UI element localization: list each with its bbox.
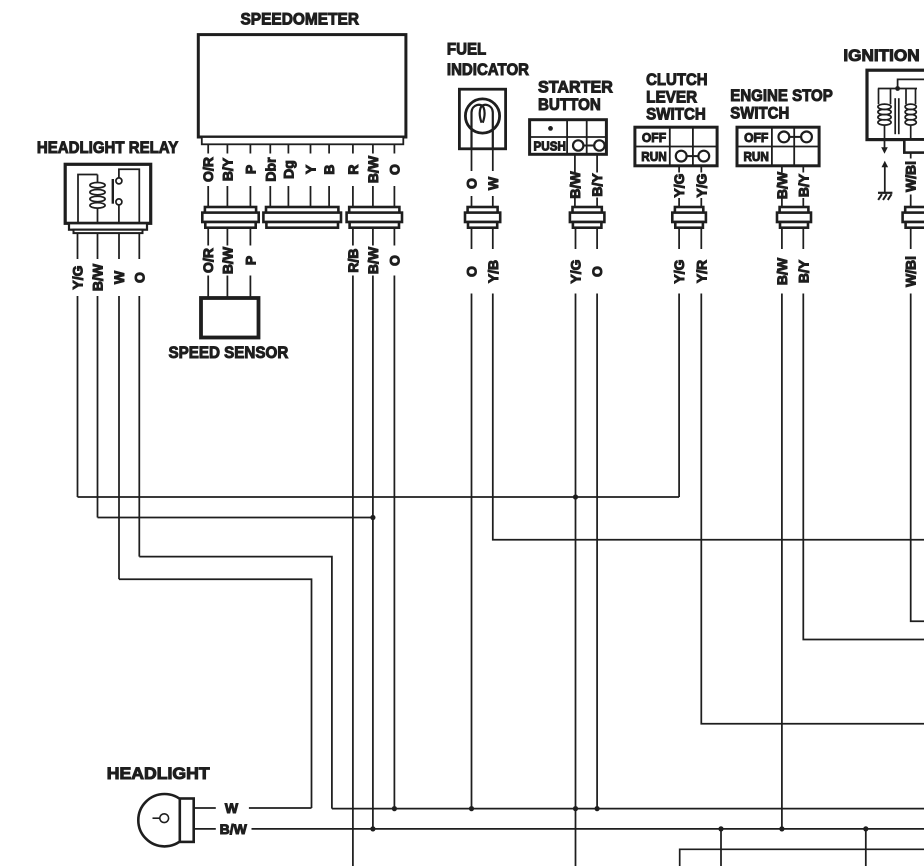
wire B/Y engine stop pin bbox=[802, 166, 804, 207]
speed sensor label bbox=[169, 343, 289, 362]
wire label Y bbox=[303, 164, 319, 174]
wire label B/W bbox=[365, 155, 381, 183]
svg-text:O: O bbox=[589, 266, 605, 277]
svg-text:LEVER: LEVER bbox=[646, 87, 697, 106]
wire label W bbox=[485, 176, 501, 190]
wire label B/W bbox=[774, 171, 790, 199]
wire label Y/R bbox=[693, 260, 709, 283]
svg-text:P: P bbox=[242, 165, 258, 174]
svg-text:W/Bl: W/Bl bbox=[903, 256, 919, 287]
wire O (starter) lower bbox=[596, 228, 598, 809]
engine stop switch label bbox=[730, 86, 833, 122]
svg-text:B/W: B/W bbox=[774, 171, 790, 199]
svg-text:B/W: B/W bbox=[365, 246, 381, 274]
svg-text:B/W: B/W bbox=[220, 821, 248, 837]
svg-text:Dbr: Dbr bbox=[262, 157, 278, 182]
wire O/R to speed sensor bbox=[207, 228, 209, 299]
wire label P bbox=[242, 165, 258, 174]
connector 2P (clutch switch) bbox=[672, 207, 706, 228]
wire W fuel pin bbox=[492, 149, 494, 207]
wire W/Bl ignition pin bbox=[910, 153, 912, 207]
svg-text:SPEED SENSOR: SPEED SENSOR bbox=[169, 343, 289, 362]
svg-text:IGNITION: IGNITION bbox=[843, 46, 919, 65]
svg-text:O: O bbox=[464, 178, 480, 189]
wire label Y/G bbox=[693, 173, 709, 197]
wire label B/W bbox=[219, 246, 235, 274]
wire label Y/B bbox=[485, 260, 501, 283]
svg-text:Y/R: Y/R bbox=[693, 260, 709, 283]
svg-text:RUN: RUN bbox=[743, 149, 769, 164]
svg-text:HEADLIGHT: HEADLIGHT bbox=[107, 764, 210, 783]
svg-text:HEADLIGHT RELAY: HEADLIGHT RELAY bbox=[37, 138, 178, 157]
wire label O/R bbox=[200, 157, 216, 182]
svg-text:Dg: Dg bbox=[280, 160, 296, 179]
svg-text:O/R: O/R bbox=[200, 157, 216, 182]
svg-text:O: O bbox=[386, 164, 402, 175]
svg-text:O: O bbox=[131, 272, 147, 283]
wire label Y/G bbox=[70, 265, 86, 289]
wire O/R speedometer pin stub bbox=[207, 144, 209, 207]
wire label B/W bbox=[567, 171, 583, 199]
wire label R bbox=[345, 164, 361, 174]
wire label W bbox=[225, 800, 239, 816]
svg-text:B/Y: B/Y bbox=[795, 173, 811, 197]
headlight label bbox=[107, 764, 210, 783]
speedometer U1 label bbox=[241, 10, 360, 29]
wire W/Bl (ignition) lower bbox=[911, 228, 924, 622]
wire Y/G net horizontal bbox=[78, 496, 680, 498]
clutch lever switch body bbox=[635, 127, 717, 166]
wire Dbr speedometer pin stub bbox=[269, 144, 271, 207]
wire Dg speedometer pin stub bbox=[287, 144, 289, 207]
speed sensor body bbox=[201, 298, 259, 338]
CDI unit (partial) bbox=[680, 849, 924, 866]
junction O net at fuel O bbox=[469, 806, 474, 811]
wire Y/G (clutch) lower bbox=[678, 228, 680, 498]
wire label B/W bbox=[220, 821, 248, 837]
svg-text:BUTTON: BUTTON bbox=[538, 95, 601, 114]
svg-text:Y/G: Y/G bbox=[671, 259, 687, 283]
svg-text:R/B: R/B bbox=[345, 248, 361, 272]
wire W headlight bbox=[194, 807, 312, 809]
wire Y/G clutch pin 1 bbox=[678, 166, 680, 207]
connector 4P (speedometer middle) bbox=[263, 207, 341, 228]
connector 3P (speedometer right) bbox=[347, 207, 402, 228]
svg-text:W: W bbox=[111, 270, 127, 284]
headlight relay K1 body bbox=[65, 164, 151, 233]
starter button body bbox=[530, 120, 607, 155]
wire O (speedometer) bbox=[393, 228, 395, 809]
svg-text:SWITCH: SWITCH bbox=[646, 105, 706, 124]
wire B/W starter pin bbox=[574, 154, 576, 207]
svg-text:O/R: O/R bbox=[200, 248, 216, 273]
connector 2P (engine stop switch) bbox=[777, 207, 811, 228]
wire label O bbox=[464, 178, 480, 189]
wire B speedometer pin stub bbox=[328, 144, 330, 207]
wire O net horizontal bbox=[332, 808, 924, 810]
svg-text:W: W bbox=[225, 800, 239, 816]
ground bbox=[878, 193, 892, 200]
svg-text:O: O bbox=[464, 266, 480, 277]
svg-text:Y/G: Y/G bbox=[693, 173, 709, 197]
wire W staircase bbox=[119, 579, 312, 808]
svg-text:OFF: OFF bbox=[642, 130, 666, 145]
wire label B/Y bbox=[219, 157, 235, 181]
starter button label bbox=[538, 77, 613, 114]
wire Y/G clutch pin 2 bbox=[700, 166, 702, 207]
svg-text:B/Y: B/Y bbox=[795, 259, 811, 283]
wire label O bbox=[131, 272, 147, 283]
engine stop switch body bbox=[737, 127, 819, 166]
junction B/W net at speedometer bbox=[370, 515, 375, 520]
headlight body bbox=[138, 794, 193, 846]
svg-text:Y/G: Y/G bbox=[70, 265, 86, 289]
clutch lever switch label bbox=[646, 70, 708, 124]
connector 2P (starter button) bbox=[570, 207, 605, 228]
svg-text:CLUTCH: CLUTCH bbox=[646, 70, 708, 89]
wire label P bbox=[242, 256, 258, 265]
connector 2P (fuel indicator) bbox=[465, 207, 500, 228]
wire O speedometer pin stub bbox=[393, 144, 395, 207]
svg-text:B/Y: B/Y bbox=[589, 173, 605, 197]
connector 3P (speedometer left) bbox=[202, 207, 258, 228]
fuel indicator body bbox=[459, 89, 505, 149]
svg-text:B/W: B/W bbox=[365, 155, 381, 183]
svg-text:B: B bbox=[321, 164, 337, 174]
wire label W/Bl bbox=[903, 161, 919, 192]
wire label B/W bbox=[365, 246, 381, 274]
svg-text:W: W bbox=[485, 176, 501, 190]
svg-text:FUEL: FUEL bbox=[447, 39, 486, 58]
wire B/W headlight bbox=[194, 828, 924, 830]
svg-text:PUSH: PUSH bbox=[534, 139, 566, 154]
svg-text:O: O bbox=[386, 255, 402, 266]
svg-text:SPEEDOMETER: SPEEDOMETER bbox=[241, 10, 360, 29]
wire O fuel pin bbox=[471, 149, 473, 207]
ignition coil label bbox=[843, 46, 919, 65]
junction B/W net right branch bbox=[863, 826, 868, 831]
speedometer U1 body bbox=[198, 35, 406, 145]
junction B/W net at speedometer bbox=[370, 826, 375, 831]
svg-text:P: P bbox=[242, 256, 258, 265]
wire Y/G relay pin bbox=[77, 233, 79, 497]
wire B/Y (engine) lower bbox=[803, 228, 924, 640]
svg-text:R: R bbox=[345, 164, 361, 174]
wire label B/Y bbox=[589, 173, 605, 197]
wire label W bbox=[111, 270, 127, 284]
wire label Y/G bbox=[671, 173, 687, 197]
connector 2P (ignition coil) bbox=[903, 207, 924, 228]
svg-text:SWITCH: SWITCH bbox=[730, 104, 789, 123]
wire B/W (engine) lower bbox=[781, 228, 783, 829]
junction O net at starter Y/G bbox=[573, 806, 578, 811]
junction O net at starter O bbox=[595, 806, 600, 811]
svg-text:B/W: B/W bbox=[90, 263, 106, 291]
wire O (fuel) lower bbox=[471, 228, 473, 809]
svg-text:ENGINE STOP: ENGINE STOP bbox=[730, 86, 833, 105]
wire label B bbox=[321, 164, 337, 174]
wire P to speed sensor bbox=[249, 228, 251, 299]
junction O net at speedometer O bbox=[392, 806, 397, 811]
spark gap down arrow bbox=[881, 140, 888, 154]
svg-text:B/W: B/W bbox=[219, 246, 235, 274]
wire label B/W bbox=[774, 257, 790, 285]
junction Y/G net at starter bbox=[573, 494, 578, 499]
wire label Dg bbox=[280, 160, 296, 179]
ignition coil body bbox=[867, 70, 924, 139]
svg-text:Y/G: Y/G bbox=[671, 173, 687, 197]
fuel indicator label bbox=[447, 39, 529, 79]
wire B/W engine stop pin bbox=[781, 166, 783, 207]
wire label O bbox=[386, 164, 402, 175]
wire label B/Y bbox=[795, 259, 811, 283]
wire Y speedometer pin stub bbox=[310, 144, 312, 207]
wire label Dbr bbox=[262, 157, 278, 182]
wire label O bbox=[386, 255, 402, 266]
wire label O bbox=[589, 266, 605, 277]
svg-text:B/W: B/W bbox=[774, 257, 790, 285]
wire B/W relay pin bbox=[97, 233, 99, 517]
svg-text:Y/G: Y/G bbox=[568, 259, 584, 283]
svg-text:Y/B: Y/B bbox=[485, 260, 501, 283]
wire O relay pin bbox=[138, 233, 140, 556]
wire B/W net horizontal bbox=[98, 517, 373, 519]
wire B/W (speedometer) bbox=[372, 228, 374, 829]
spark gap up arrow bbox=[882, 161, 889, 193]
wire label Y/G bbox=[568, 259, 584, 283]
wire O staircase bbox=[139, 557, 332, 809]
svg-text:Y: Y bbox=[303, 164, 319, 174]
junction B/W net branch bbox=[718, 826, 723, 831]
wire R speedometer pin stub bbox=[352, 144, 354, 207]
wire B/W right branch down bbox=[865, 829, 867, 866]
wire Y/G (starter) lower bbox=[575, 228, 577, 866]
wire W relay pin bbox=[118, 233, 120, 579]
svg-text:STARTER: STARTER bbox=[538, 77, 613, 96]
svg-text:RUN: RUN bbox=[641, 149, 667, 164]
wire Y/B (fuel) lower bbox=[493, 228, 924, 540]
wire Y/R (clutch) lower bbox=[701, 228, 924, 724]
wire label W/Bl bbox=[903, 256, 919, 287]
wire label B/W bbox=[90, 263, 106, 291]
wire label O/R bbox=[200, 248, 216, 273]
wire P speedometer pin stub bbox=[249, 144, 251, 207]
svg-text:INDICATOR: INDICATOR bbox=[447, 60, 529, 79]
ignition coil HT terminal bbox=[904, 140, 924, 153]
wire B/Y starter pin bbox=[596, 154, 598, 207]
svg-text:W/Bl: W/Bl bbox=[903, 161, 919, 192]
wire label B/Y bbox=[795, 173, 811, 197]
svg-text:B/W: B/W bbox=[567, 171, 583, 199]
wire B/Y speedometer pin stub bbox=[226, 144, 228, 207]
wire R/B (speedometer) bbox=[352, 228, 354, 866]
wire B/W branch down bbox=[720, 829, 722, 866]
wire label Y/G bbox=[671, 259, 687, 283]
headlight relay K1 label bbox=[37, 138, 178, 157]
wire label O bbox=[464, 266, 480, 277]
junction B/W net at engine stop bbox=[779, 826, 784, 831]
svg-text:B/Y: B/Y bbox=[219, 157, 235, 181]
svg-text:OFF: OFF bbox=[744, 130, 768, 145]
wire B/W speedometer pin stub bbox=[372, 144, 374, 207]
wire B/W to speed sensor bbox=[226, 228, 228, 299]
wire label R/B bbox=[345, 248, 361, 272]
